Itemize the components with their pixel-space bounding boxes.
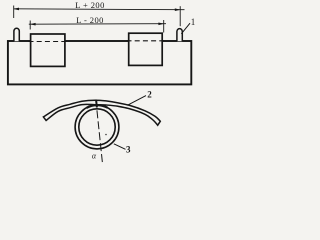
beam main rectangle bbox=[8, 41, 191, 84]
arrowhead right of L+200 bbox=[175, 8, 181, 11]
right plate on beam bbox=[129, 33, 163, 65]
extension line left at plate bbox=[29, 21, 31, 30]
leader line to label 2 bbox=[127, 96, 146, 106]
left plate on beam bbox=[31, 34, 65, 66]
tangent junction mark at ring top bbox=[95, 100, 98, 108]
pipe ring inner circle bbox=[79, 109, 115, 145]
hidden beam edge through left plate (dashed) bbox=[29, 41, 68, 43]
svg-text:2: 2 bbox=[147, 90, 152, 100]
hidden beam edge through right plate (dashed) bbox=[127, 40, 165, 42]
svg-text:3: 3 bbox=[126, 145, 131, 155]
extension line left at tab bbox=[13, 6, 15, 19]
leader line to label 3 bbox=[114, 144, 126, 150]
extension line right at plate bbox=[163, 20, 165, 33]
pipe ring (item 3) outer circle bbox=[75, 105, 119, 149]
dimension line L+200 bbox=[14, 8, 185, 11]
arrowhead left of L-200 bbox=[30, 23, 36, 26]
extension line right at tab bbox=[179, 6, 181, 26]
dimension line L-200 bbox=[29, 23, 166, 26]
right lifting lug bbox=[177, 29, 182, 42]
paper background bbox=[0, 0, 200, 167]
svg-text:L - 200: L - 200 bbox=[76, 15, 104, 25]
leader line to label 1 bbox=[181, 23, 190, 34]
arrowhead left of L+200 bbox=[13, 8, 19, 11]
left lifting lug bbox=[14, 28, 19, 41]
svg-text:1: 1 bbox=[191, 17, 196, 27]
inclined centre line through ring (angle alpha) bbox=[96, 99, 103, 162]
svg-text:L + 200: L + 200 bbox=[75, 0, 104, 10]
ring top edge merged with strap (thick tangent arc) bbox=[87, 105, 108, 108]
ink speck inside ring bbox=[105, 134, 107, 136]
arrowhead right of L-200 bbox=[158, 23, 164, 26]
curved strap (item 2) over the ring bbox=[43, 100, 160, 125]
